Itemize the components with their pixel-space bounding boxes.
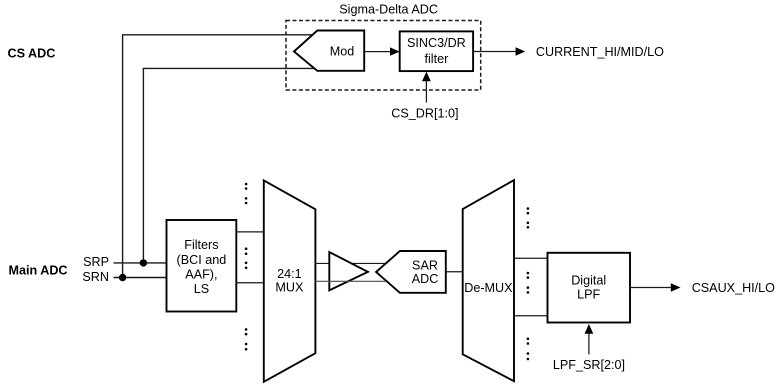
- junction: SRP node: [140, 259, 147, 266]
- node dots: De-MUX outputs top: [527, 207, 530, 228]
- block: Digital LPF: [548, 253, 631, 323]
- svg-text:CS_DR[1:0]: CS_DR[1:0]: [391, 107, 458, 121]
- svg-text:Filters: Filters: [184, 238, 218, 252]
- arrowhead: LPF_SR into Digital LPF: [585, 324, 594, 334]
- wire: Filters to MUX lower: [236, 282, 263, 284]
- svg-text:AAF),: AAF),: [185, 268, 217, 282]
- dashed boundary: Sigma-Delta ADC: [286, 21, 481, 91]
- arrowhead: CS_DR into filter: [422, 72, 431, 82]
- svg-text:De-MUX: De-MUX: [464, 281, 513, 295]
- svg-text:SRN: SRN: [82, 270, 109, 284]
- wire: SRN riser to Mod upper input: [123, 35, 313, 278]
- svg-text:LPF_SR[2:0]: LPF_SR[2:0]: [553, 358, 625, 372]
- svg-text:(BCI and: (BCI and: [177, 253, 227, 267]
- svg-text:LS: LS: [194, 282, 209, 296]
- svg-text:SAR: SAR: [412, 258, 438, 272]
- block: Filters (BCI and AAF), LS: [167, 220, 237, 312]
- op-amp buffer triangle: [329, 252, 368, 290]
- wire: SINC3 filter output: [473, 51, 516, 53]
- block: De-MUX trapezoid: [463, 180, 514, 381]
- svg-text:Digital: Digital: [571, 274, 606, 288]
- svg-text:SINC3/DR: SINC3/DR: [407, 36, 466, 50]
- wire: De-MUX to Digital LPF upper: [514, 257, 548, 259]
- node dots: De-MUX outputs bottom: [527, 338, 530, 361]
- block: SAR ADC pentagon: [376, 251, 446, 293]
- svg-text:Sigma-Delta ADC: Sigma-Delta ADC: [339, 2, 438, 16]
- svg-text:CS ADC: CS ADC: [8, 46, 56, 60]
- wire: Digital LPF output: [630, 287, 672, 289]
- wire: Mod to SINC3 filter: [364, 51, 391, 53]
- svg-text:CSAUX_HI/LO: CSAUX_HI/LO: [692, 281, 775, 295]
- svg-text:LPF: LPF: [577, 287, 600, 301]
- node dots: De-MUX outputs middle: [527, 272, 530, 294]
- wire: SAR ADC to De-MUX: [446, 271, 463, 273]
- wire: CS_DR control line: [425, 81, 427, 103]
- svg-text:ADC: ADC: [412, 272, 439, 286]
- svg-text:Main ADC: Main ADC: [9, 264, 68, 278]
- node dots: MUX inputs bottom: [245, 328, 248, 350]
- svg-text:CURRENT_HI/MID/LO: CURRENT_HI/MID/LO: [536, 45, 664, 59]
- wire: MUX to SAR lower (bypass): [315, 280, 385, 282]
- svg-text:24:1: 24:1: [277, 267, 302, 281]
- junction: SRN node: [119, 274, 126, 281]
- arrowhead: CURRENT output: [516, 47, 526, 55]
- wire: MUX to SAR upper (through amp): [315, 262, 385, 264]
- svg-text:MUX: MUX: [275, 281, 304, 295]
- arrowhead: into SINC3 filter: [390, 47, 400, 55]
- wire: De-MUX to Digital LPF lower: [514, 315, 548, 317]
- wire: LPF_SR control line: [588, 333, 590, 354]
- wire: SRP riser to Mod lower input: [143, 68, 314, 263]
- wire: SRN input: [114, 277, 167, 279]
- block: Mod modulator pentagon: [294, 31, 364, 71]
- node dots: MUX inputs middle: [245, 247, 248, 269]
- arrowhead: CSAUX output: [671, 283, 681, 291]
- svg-text:Mod: Mod: [330, 44, 355, 58]
- wire: Filters to MUX upper: [236, 231, 263, 233]
- svg-text:filter: filter: [425, 52, 449, 66]
- block: SINC3/DR filter: [400, 31, 473, 71]
- block: 24:1 MUX trapezoid: [264, 180, 316, 381]
- wire: SRP input: [114, 262, 167, 264]
- svg-text:SRP: SRP: [83, 255, 109, 269]
- node dots: MUX inputs top: [245, 183, 248, 205]
